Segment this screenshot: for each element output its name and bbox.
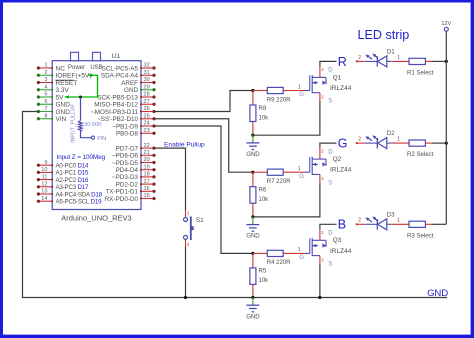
- transistor Q2 IRLZ44: [305, 171, 310, 173]
- svg-text:RESET: RESET: [56, 80, 78, 87]
- junction S1 on GND rail: [184, 296, 187, 299]
- pin 20 ~PD5-D5: [141, 162, 154, 164]
- pin S stub Q3: [319, 256, 321, 264]
- svg-text:S: S: [328, 180, 332, 186]
- svg-text:R9 220R: R9 220R: [267, 97, 291, 103]
- wire R5 10k top stub: [252, 253, 254, 268]
- svg-text:1: 1: [298, 166, 301, 172]
- svg-text:GND: GND: [124, 87, 138, 94]
- wire pin25 D10 to G gate: [154, 119, 253, 172]
- svg-text:IRLZ44: IRLZ44: [330, 167, 352, 174]
- svg-text:30: 30: [144, 77, 150, 83]
- IC U1 Arduino_UNO_REV3 body: [52, 61, 141, 210]
- svg-text:2: 2: [358, 55, 361, 61]
- wire S1 to GND rail: [185, 247, 187, 298]
- wire R6 10k top stub: [252, 172, 254, 187]
- wire LED stub left D3: [357, 223, 365, 225]
- wire R5 10k bottom stub: [252, 284, 254, 297]
- svg-text:S: S: [328, 99, 332, 105]
- svg-text:Arduino_UNO_REV3: Arduino_UNO_REV3: [61, 214, 131, 223]
- svg-text:R6: R6: [259, 188, 267, 194]
- svg-text:GND: GND: [246, 234, 260, 240]
- wire LED stub left D2: [357, 142, 365, 144]
- svg-text:R7 220R: R7 220R: [267, 179, 291, 185]
- svg-text:R5: R5: [259, 269, 267, 275]
- svg-text:10k: 10k: [259, 197, 270, 203]
- svg-text:INPUT_PULLUP: INPUT_PULLUP: [70, 104, 76, 143]
- svg-text:AREF: AREF: [121, 80, 138, 87]
- svg-text:NC: NC: [56, 65, 66, 72]
- ground GND2: [252, 217, 254, 224]
- pin D stub Q1: [319, 67, 321, 78]
- pin 17 PD2-D2: [141, 183, 154, 185]
- junction LED branch D1 on 12V rail: [445, 60, 448, 63]
- pin 22 PD7-D7: [141, 147, 154, 149]
- svg-text:SCK-PB5-D13: SCK-PB5-D13: [97, 94, 138, 101]
- resistor R4 220R: [267, 250, 283, 256]
- pin 12 A3-PC3: [38, 186, 52, 188]
- U1 power connector tab: [71, 52, 79, 60]
- svg-text:1: 1: [397, 55, 400, 61]
- wire gate stub right Q2: [283, 171, 304, 173]
- pin 21 ~PD6-D6: [141, 154, 154, 156]
- wire LED stub right D3: [387, 223, 392, 225]
- svg-text:R3 Select: R3 Select: [407, 232, 434, 239]
- ground GND1: [252, 135, 254, 142]
- transistor Q1 IRLZ44: [305, 90, 310, 92]
- svg-text:GND: GND: [56, 102, 71, 109]
- resistor R5 10k: [250, 268, 256, 285]
- pin 25 ~SS'-PB2-D10: [141, 118, 154, 120]
- pin 15 RX-PD0-D0: [141, 198, 154, 200]
- ground GND3: [252, 298, 254, 305]
- pin 8 VIN: [38, 118, 52, 120]
- pin 16 TX-PD1-D1: [141, 190, 154, 192]
- svg-text:29: 29: [144, 84, 150, 90]
- svg-text:~MOSI-PB3-D11: ~MOSI-PB3-D11: [91, 109, 138, 116]
- svg-text:10k: 10k: [259, 115, 270, 121]
- svg-text:~PD5-D5: ~PD5-D5: [112, 160, 139, 167]
- node net R at LED: [356, 60, 358, 62]
- svg-text:VIN: VIN: [56, 116, 67, 123]
- pin 1 NC: [38, 67, 52, 69]
- svg-text:2: 2: [358, 218, 361, 224]
- svg-text:G: G: [299, 255, 304, 261]
- svg-text:26: 26: [144, 106, 150, 112]
- svg-text:2: 2: [44, 70, 47, 76]
- resistor R3: [409, 221, 425, 227]
- resistor R8 10k: [250, 105, 256, 122]
- svg-text:1: 1: [397, 218, 400, 224]
- pin 29 GND: [141, 89, 154, 91]
- wire gate stub right Q3: [283, 252, 304, 254]
- svg-text:Input Z = 100Meg: Input Z = 100Meg: [56, 154, 105, 161]
- pin 7 GND: [38, 111, 52, 113]
- svg-text:23: 23: [144, 128, 150, 134]
- svg-text:21: 21: [144, 150, 150, 156]
- svg-text:D: D: [328, 231, 333, 237]
- svg-text:31: 31: [144, 70, 150, 76]
- svg-text:TX-PD1-D1: TX-PD1-D1: [105, 189, 138, 196]
- resistor internal pullup 30-50K: [78, 121, 82, 131]
- wire pullup upper: [80, 97, 82, 121]
- svg-text:28: 28: [144, 92, 150, 98]
- svg-text:A4-PC4-SDA D18: A4-PC4-SDA D18: [56, 191, 103, 198]
- wire LED stub left D1: [357, 60, 365, 62]
- pin 3 RESET: [38, 82, 52, 84]
- wire pin26 D11 to R gate: [154, 91, 253, 112]
- supply terminal 12V: [444, 27, 448, 31]
- resistor R1: [409, 58, 425, 64]
- wire pin7 GND to bottom rail: [23, 112, 448, 298]
- junction source Q3 on GND rail: [318, 296, 321, 299]
- svg-text:PD2-D2: PD2-D2: [116, 181, 139, 188]
- svg-text:12V: 12V: [441, 21, 451, 27]
- pin S stub Q1: [319, 93, 321, 101]
- svg-text:Q1: Q1: [333, 74, 342, 81]
- pin 9 A0-PC0: [38, 164, 52, 166]
- svg-text:Q3: Q3: [333, 237, 342, 244]
- svg-text:R: R: [338, 55, 347, 69]
- pin 30 AREF: [141, 82, 154, 84]
- pin S stub Q2: [319, 174, 321, 182]
- wire R3 to 12V rail: [433, 223, 447, 225]
- svg-text:Q2: Q2: [333, 156, 342, 163]
- svg-text:A2-PC2 D16: A2-PC2 D16: [56, 177, 90, 184]
- svg-text:D1: D1: [387, 49, 395, 55]
- svg-text:3: 3: [44, 77, 47, 83]
- wire gate stub left Q3: [253, 252, 267, 254]
- svg-text:D3: D3: [387, 212, 395, 218]
- svg-text:27: 27: [144, 99, 150, 105]
- wire R2 to 12V rail: [433, 142, 447, 144]
- resistor R7 220R: [267, 169, 283, 175]
- svg-text:19: 19: [144, 164, 150, 170]
- svg-text:10k: 10k: [259, 278, 270, 284]
- svg-text:5: 5: [44, 92, 47, 98]
- svg-text:1: 1: [397, 137, 400, 143]
- svg-text:10: 10: [41, 167, 47, 173]
- svg-text:32: 32: [144, 63, 150, 69]
- wire R8 10k top stub: [252, 91, 254, 106]
- svg-text:22: 22: [144, 143, 150, 149]
- svg-text:7: 7: [44, 106, 47, 112]
- wire pin22 D7 to S1: [154, 148, 186, 210]
- svg-text:G: G: [338, 137, 348, 151]
- wire pin24 D9 to B gate: [154, 126, 253, 253]
- wire R6 10k bottom stub: [252, 203, 254, 217]
- svg-text:S: S: [328, 262, 332, 268]
- pin D stub Q2: [319, 148, 321, 159]
- svg-text:R2 Select: R2 Select: [407, 151, 434, 158]
- node pullup junction on 5V line: [79, 96, 82, 99]
- svg-text:G: G: [299, 92, 304, 98]
- svg-text:U1: U1: [112, 53, 121, 60]
- wire 12V rail: [445, 31, 447, 224]
- pin 5 5V: [38, 96, 52, 98]
- node net G at LED: [356, 142, 358, 144]
- wire R2 right stub: [425, 142, 432, 144]
- pin 14 A5-PC5-SCL: [38, 200, 52, 202]
- svg-text:D: D: [328, 149, 333, 155]
- LED D3: [376, 219, 378, 229]
- junction gate node G: [251, 171, 254, 174]
- wire R1 right stub: [425, 60, 432, 62]
- svg-text:PB0-D8: PB0-D8: [116, 131, 139, 138]
- pin 28 SCK-PB5-D13: [141, 96, 154, 98]
- switch S1: [185, 210, 187, 217]
- svg-text:PD7-D7: PD7-D7: [116, 145, 139, 152]
- svg-text:9: 9: [44, 160, 47, 166]
- wire R3 right stub: [425, 223, 432, 225]
- resistor R9 220R: [267, 87, 283, 93]
- svg-text:~PB1-D9: ~PB1-D9: [112, 123, 138, 130]
- U1 usb connector tab: [93, 52, 101, 60]
- svg-text:S1: S1: [196, 217, 204, 224]
- wire green IOREF to 5V bracket: [65, 75, 98, 97]
- pin 27 MISO-PB4-D12: [141, 103, 154, 105]
- svg-text:A3-PC3 D17: A3-PC3 D17: [56, 184, 90, 191]
- svg-text:Power: Power: [68, 65, 85, 71]
- svg-text:SCL-PC5-A5: SCL-PC5-A5: [102, 65, 139, 72]
- pin 2 IOREF(+5V): [38, 74, 52, 76]
- pin 11 A2-PC2: [38, 179, 52, 181]
- wire LED stub right D2: [387, 142, 392, 144]
- pin 19 PD4-D4: [141, 169, 154, 171]
- pin 6 GND: [38, 103, 52, 105]
- wire gate stub left Q1: [253, 90, 267, 92]
- wire source Q2 to ground node: [253, 183, 320, 217]
- svg-text:SDA-PC4-A4: SDA-PC4-A4: [101, 73, 139, 80]
- wire gate stub right Q1: [283, 90, 304, 92]
- svg-text:25: 25: [144, 113, 150, 119]
- node net B at LED: [356, 223, 358, 225]
- svg-text:30-50K: 30-50K: [84, 122, 102, 128]
- svg-text:R4 220R: R4 220R: [267, 260, 291, 266]
- svg-text:B: B: [338, 218, 346, 232]
- svg-text:11: 11: [42, 174, 48, 180]
- svg-text:IRLZ44: IRLZ44: [330, 248, 352, 255]
- junction source node G: [251, 215, 254, 218]
- svg-text:IOREF(+5V): IOREF(+5V): [56, 73, 92, 80]
- svg-text:R1 Select: R1 Select: [407, 69, 434, 76]
- svg-text:1: 1: [298, 84, 301, 90]
- pin D stub Q3: [319, 229, 321, 240]
- svg-text:20: 20: [144, 157, 150, 163]
- junction gate node R: [251, 89, 254, 92]
- junction LED branch D2 on 12V rail: [445, 142, 448, 145]
- svg-text:LED strip: LED strip: [358, 28, 410, 42]
- wire drain Q1 to net R: [320, 61, 337, 66]
- svg-text:~SS'-PB2-D10: ~SS'-PB2-D10: [97, 116, 138, 123]
- pin 10 A1-PC1: [38, 171, 52, 173]
- svg-text:13: 13: [41, 189, 47, 195]
- pin 13 A4-PC4-SDA: [38, 193, 52, 195]
- svg-text:PD4-D4: PD4-D4: [116, 167, 139, 174]
- svg-text:17: 17: [144, 179, 150, 185]
- svg-text:4: 4: [44, 84, 47, 90]
- pin 18 ~PD3-D3: [141, 176, 154, 178]
- svg-text:GND: GND: [427, 288, 448, 299]
- svg-text:A0-PC0 D14: A0-PC0 D14: [56, 163, 90, 170]
- svg-text:6: 6: [44, 99, 47, 105]
- pin open circle PIN: [91, 136, 94, 139]
- pin 32 SCL-PC5-A5: [141, 67, 154, 69]
- wire pullup lower: [81, 131, 92, 138]
- wire drain Q3 to net B: [320, 224, 337, 229]
- svg-text:D2: D2: [387, 131, 395, 137]
- resistor R6 10k: [250, 187, 256, 204]
- transistor Q3 IRLZ44: [305, 252, 310, 254]
- wire source Q3 to GND rail: [319, 264, 321, 298]
- resistor R2: [409, 140, 425, 146]
- wire drain Q2 to net G: [320, 143, 337, 148]
- svg-text:R8: R8: [259, 106, 267, 112]
- svg-text:14: 14: [41, 196, 47, 202]
- svg-text:PIN: PIN: [97, 136, 106, 142]
- svg-text:IRLZ44: IRLZ44: [330, 85, 352, 92]
- svg-text:15: 15: [144, 193, 150, 199]
- svg-text:12: 12: [41, 182, 47, 188]
- svg-text:3.3V: 3.3V: [56, 87, 70, 94]
- LED D2: [376, 138, 378, 148]
- svg-text:~PD6-D6: ~PD6-D6: [112, 153, 139, 160]
- wire LED stub right D1: [387, 60, 392, 62]
- pin 4 3.3V: [38, 89, 52, 91]
- svg-text:A1-PC1 D15: A1-PC1 D15: [56, 170, 90, 177]
- svg-text:1: 1: [298, 247, 301, 253]
- wire source Q1 to ground node: [253, 101, 320, 135]
- svg-text:G: G: [299, 174, 304, 180]
- svg-text:GND: GND: [56, 109, 71, 116]
- pin 23 PB0-D8: [141, 132, 154, 134]
- svg-text:MISO-PB4-D12: MISO-PB4-D12: [94, 102, 138, 109]
- LED D1: [376, 56, 378, 66]
- svg-text:GND: GND: [246, 152, 260, 158]
- junction gate node B: [251, 252, 254, 255]
- svg-text:~PD3-D3: ~PD3-D3: [112, 174, 139, 181]
- svg-text:8: 8: [44, 113, 47, 119]
- svg-text:A5-PC5-SCL D19: A5-PC5-SCL D19: [56, 199, 103, 206]
- pin 31 SDA-PC4-A4: [141, 74, 154, 76]
- pin 26 ~MOSI-PB3-D11: [141, 111, 154, 113]
- svg-text:D: D: [328, 68, 333, 74]
- junction source node R: [251, 134, 254, 137]
- wire gate stub left Q2: [253, 171, 267, 173]
- svg-text:24: 24: [144, 121, 150, 127]
- svg-text:2: 2: [358, 137, 361, 143]
- svg-text:RX-PD0-D0: RX-PD0-D0: [105, 196, 139, 203]
- wire R1 to 12V rail: [433, 60, 447, 62]
- junction source node B: [251, 296, 254, 299]
- svg-text:GND: GND: [246, 314, 260, 320]
- pin 24 ~PB1-D9: [141, 125, 154, 127]
- svg-text:18: 18: [144, 172, 150, 178]
- svg-text:5V: 5V: [56, 94, 65, 101]
- svg-text:16: 16: [144, 186, 150, 192]
- svg-text:1: 1: [44, 63, 47, 69]
- wire R8 10k bottom stub: [252, 122, 254, 136]
